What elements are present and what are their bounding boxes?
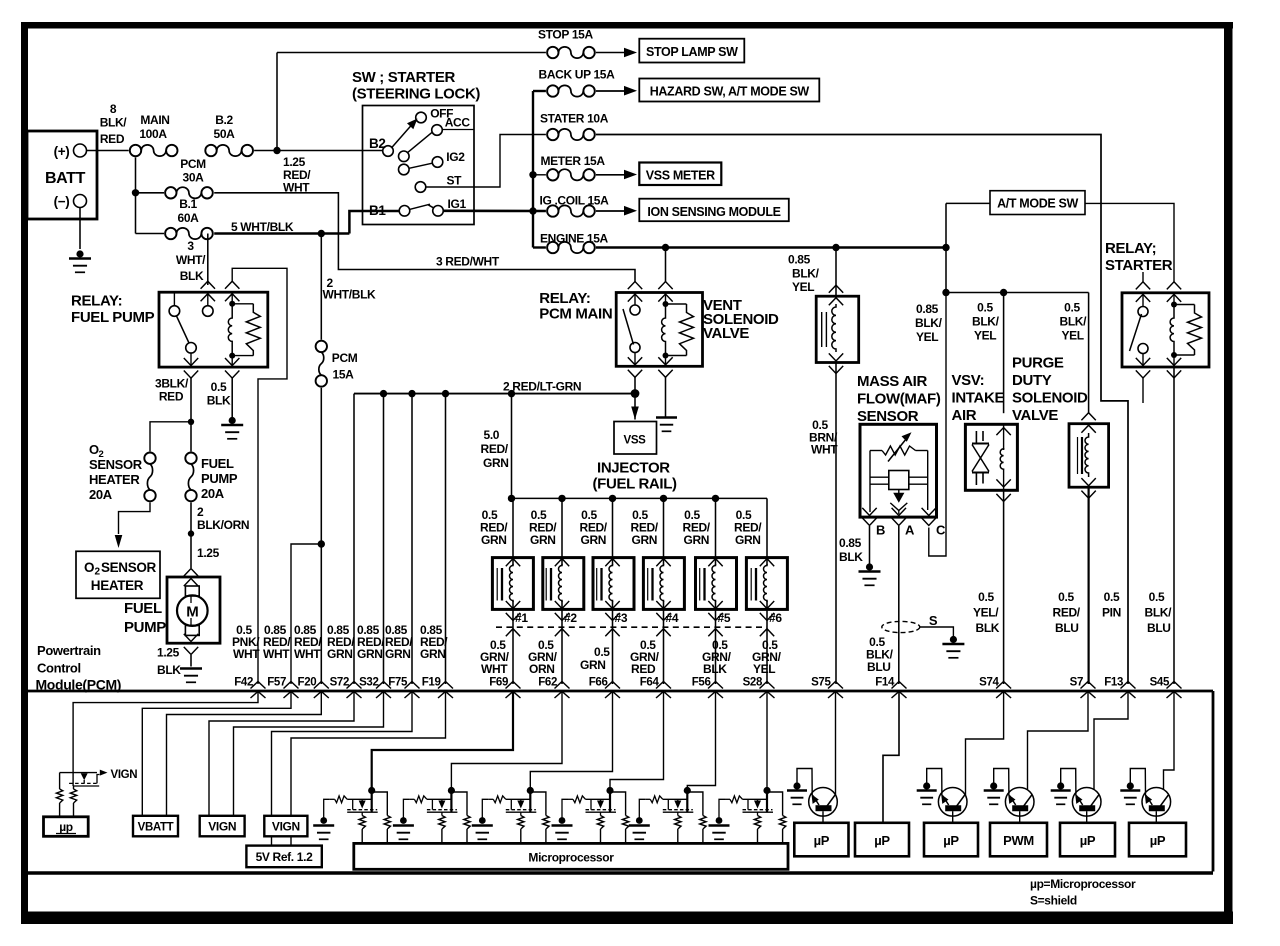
node rail junction injector 3	[609, 495, 616, 502]
wire BLK/YEL distribution bus	[946, 292, 1089, 294]
svg-text:5V Ref. 1.2: 5V Ref. 1.2	[256, 850, 314, 864]
relay fuel pump switch arm	[177, 316, 190, 343]
svg-text:F20: F20	[298, 677, 317, 689]
injector #1 core lines	[496, 568, 498, 601]
switch terminal B1	[399, 206, 410, 217]
transistor output stage	[938, 788, 967, 817]
resistor cell right	[73, 786, 75, 789]
wire A/T mode sw left to bus	[946, 202, 990, 204]
relay PCM main coil	[663, 301, 669, 307]
box uP driver	[794, 823, 848, 857]
ground driver cell	[716, 817, 723, 824]
svg-text:MAIN: MAIN	[140, 113, 169, 127]
fuse PCM 30A	[165, 187, 176, 198]
node junction to F57	[318, 540, 325, 547]
svg-text:F64: F64	[640, 677, 660, 689]
pin S28 PCM connector	[760, 682, 775, 689]
svg-text:F66: F66	[589, 677, 608, 689]
wire IG1 to IG COIL fuse row	[444, 210, 546, 213]
box Microprocessor	[354, 843, 788, 869]
relay PCM main switch contacts	[630, 305, 640, 315]
svg-text:GRN: GRN	[481, 533, 507, 547]
svg-text:VSV:: VSV:	[952, 372, 985, 389]
driver cell series resistor to microprocessor	[757, 812, 759, 815]
svg-text:ORN: ORN	[529, 662, 555, 676]
svg-text:BLK: BLK	[180, 269, 204, 283]
svg-text:STARTER: STARTER	[1105, 257, 1173, 274]
svg-text:VALVE: VALVE	[1012, 407, 1058, 424]
svg-text:0.5: 0.5	[1058, 590, 1074, 604]
driver cell ground leg	[639, 799, 645, 817]
wire bus corner up to B1	[349, 211, 399, 234]
svg-text:(STEERING LOCK): (STEERING LOCK)	[352, 86, 480, 103]
node junction 2 WHT/BLK	[318, 230, 325, 237]
VSV coil	[1003, 424, 1005, 450]
pin F66 PCM connector	[605, 682, 620, 689]
svg-text:F42: F42	[234, 677, 253, 689]
svg-text:WHT/BLK: WHT/BLK	[323, 288, 377, 302]
svg-text:60A: 60A	[178, 211, 200, 225]
wire base to driver box	[1019, 811, 1021, 823]
relay fuel pump coil resistor	[232, 303, 253, 305]
svg-text:YEL: YEL	[916, 330, 938, 344]
driver cell MOSFET	[597, 801, 604, 809]
wire battery positive to fuse MAIN	[87, 150, 129, 152]
driver cell series resistor to microprocessor	[677, 812, 679, 815]
wire pin route to internal block 7	[291, 692, 446, 817]
svg-text:S: S	[929, 613, 938, 628]
driver cell pull resistor right	[687, 792, 703, 816]
svg-text:PCM: PCM	[332, 351, 358, 365]
svg-text:B.2: B.2	[215, 113, 233, 127]
wire engine bus to vent solenoid	[835, 248, 837, 297]
svg-text:BLK/: BLK/	[1060, 315, 1088, 329]
driver cell junction	[609, 787, 611, 812]
svg-text:#2: #2	[564, 611, 577, 625]
driver cell series resistor to microprocessor	[441, 812, 443, 815]
driver cell ground leg	[562, 799, 568, 817]
injector #4 box	[643, 558, 684, 610]
svg-text:BLK/: BLK/	[1145, 606, 1173, 620]
sensor MAF box	[860, 424, 937, 517]
svg-text:0.85: 0.85	[839, 536, 862, 550]
wire injector pin route to driver cell 3	[530, 692, 612, 788]
wire relay switch output 3BLK/RED	[190, 378, 192, 451]
wire relay coil to ground	[665, 378, 667, 417]
transistor output stage	[1005, 788, 1034, 817]
purge solenoid core lines	[1077, 437, 1079, 474]
svg-text:RED/: RED/	[1053, 606, 1081, 620]
svg-text:BLK/: BLK/	[972, 315, 1000, 329]
svg-text:BLK: BLK	[839, 550, 863, 564]
wire arrow to ion sensing module	[596, 210, 624, 212]
wire rail to S72 pin	[353, 394, 355, 684]
svg-text:0.5: 0.5	[594, 645, 610, 659]
svg-text:Microprocessor: Microprocessor	[528, 851, 614, 865]
svg-text:B1: B1	[369, 203, 386, 218]
svg-text:2: 2	[197, 505, 204, 519]
wire fuel pump feed branch to O2 heater fuse	[150, 422, 191, 452]
svg-text:RED: RED	[631, 662, 656, 676]
driver cell gate network	[330, 798, 335, 800]
svg-text:WHT/: WHT/	[176, 253, 206, 267]
fuse MAIN 100A	[130, 145, 141, 156]
svg-text:PUMP: PUMP	[201, 471, 238, 486]
injector #4 coil	[660, 564, 663, 602]
svg-text:HEATER: HEATER	[89, 472, 140, 487]
purge solenoid coil	[1085, 433, 1089, 477]
ground driver cell	[559, 817, 566, 824]
wire fuse to fuel pump motor	[190, 502, 192, 568]
svg-text:F19: F19	[422, 677, 441, 689]
svg-text:ION SENSING MODULE: ION SENSING MODULE	[647, 205, 780, 219]
injector #4 core lines	[647, 568, 649, 601]
node junction vent solenoid	[832, 244, 839, 251]
driver cell pull resistor right	[767, 792, 783, 816]
injector #1 box	[492, 558, 533, 610]
svg-text:A: A	[905, 523, 915, 538]
svg-text:GRN: GRN	[580, 658, 606, 672]
ground driver cell	[636, 817, 643, 824]
svg-text:SENSOR: SENSOR	[101, 560, 157, 575]
driver cell junction	[686, 787, 688, 812]
svg-text:2: 2	[95, 567, 101, 578]
node junction vent-relay coil	[662, 244, 669, 251]
box microprocessor uP	[44, 817, 89, 837]
wire arrow to stop lamp sw	[596, 52, 624, 54]
svg-text:WHT: WHT	[481, 662, 508, 676]
svg-text:C: C	[936, 523, 946, 538]
svg-text:RELAY;: RELAY;	[1105, 240, 1156, 257]
shield ellipse on MAF signal	[882, 621, 920, 632]
svg-text:BLU: BLU	[1055, 621, 1079, 635]
svg-text:µP: µP	[1150, 833, 1166, 848]
wire 2 WHT/BLK down to PCM 15A fuse	[320, 234, 322, 340]
box HAZARD SW A/T MODE SW	[639, 79, 819, 102]
svg-text:Control: Control	[37, 661, 81, 676]
svg-text:BLU: BLU	[867, 660, 891, 674]
pin F64 PCM connector	[656, 682, 671, 689]
svg-text:IG2: IG2	[446, 150, 465, 164]
driver cell pull resistor right	[530, 792, 546, 816]
svg-text:INTAKE: INTAKE	[952, 390, 1005, 407]
svg-text:BLK/: BLK/	[915, 316, 943, 330]
svg-text:RED: RED	[159, 390, 184, 404]
svg-text:B2: B2	[369, 136, 386, 151]
switch arm B1 to IG1	[410, 204, 430, 209]
relay fuel pump coil	[229, 301, 235, 307]
injector #3 wire and pins	[612, 498, 614, 565]
node rail junctions	[380, 390, 387, 397]
wire MAF B to ground	[869, 526, 871, 564]
MAF inner element square	[889, 471, 909, 490]
wire injector firing dashed line	[496, 626, 767, 628]
svg-text:(FUEL RAIL): (FUEL RAIL)	[593, 476, 678, 493]
relay fuel pump box	[159, 292, 268, 367]
switch contact IG1	[433, 206, 444, 217]
wire base to driver box	[822, 811, 824, 823]
svg-text:1.25: 1.25	[157, 646, 180, 660]
wire base to driver box	[1155, 811, 1157, 823]
svg-text:15A: 15A	[333, 368, 355, 382]
pin F14 PCM connector	[892, 682, 907, 689]
wire B.2 fuse to switch B2	[254, 150, 383, 152]
wire pin route to internal block 6	[272, 692, 413, 817]
wire rail to S32 pin	[383, 394, 385, 684]
svg-text:µp: µp	[59, 820, 73, 834]
wire vent solenoid to S75	[835, 363, 837, 685]
svg-text:20A: 20A	[89, 487, 113, 502]
fuse B.1 60A	[165, 228, 176, 239]
injector #5 coil	[712, 564, 716, 602]
fuse O2 sensor heater 20A	[144, 453, 155, 464]
svg-text:PWM: PWM	[1003, 833, 1034, 848]
node rail junction injector 4	[660, 495, 667, 502]
wire S75 to transistor 1	[835, 692, 837, 796]
svg-text:YEL/: YEL/	[973, 606, 999, 620]
svg-text:STOP 15A: STOP 15A	[538, 28, 593, 42]
node rail dot	[508, 495, 515, 502]
svg-text:Powertrain: Powertrain	[37, 643, 101, 658]
svg-text:VIGN: VIGN	[272, 820, 300, 834]
svg-text:F57: F57	[267, 677, 286, 689]
relay PCM main coil resistor	[666, 303, 687, 305]
MAF pin A	[898, 511, 900, 515]
transistor output stage	[809, 788, 838, 817]
svg-text:S28: S28	[743, 677, 763, 689]
svg-text:F69: F69	[489, 677, 508, 689]
svg-text:F13: F13	[1104, 677, 1123, 689]
node junction at PCM 30A row	[132, 189, 139, 196]
node rail junction injector 2	[558, 495, 565, 502]
relay starter coil	[1171, 302, 1177, 308]
svg-text:BLU: BLU	[1147, 621, 1171, 635]
valve VSV intake air box	[965, 424, 1017, 490]
svg-text:VALVE: VALVE	[703, 325, 749, 342]
switch arm to IG2	[409, 163, 432, 168]
svg-text:0.85: 0.85	[916, 302, 939, 316]
ground driver cell	[479, 817, 486, 824]
driver cell ground leg	[719, 799, 725, 817]
svg-text:INJECTOR: INJECTOR	[597, 460, 670, 477]
relay PCM main box	[616, 293, 702, 367]
pin F56 PCM connector	[708, 682, 723, 689]
svg-text:WHT: WHT	[811, 443, 838, 457]
transistor output stage	[1072, 788, 1101, 817]
MAF adjust arrow	[888, 439, 907, 462]
svg-text:RELAY:: RELAY:	[71, 293, 122, 310]
pin F20 PCM connector	[314, 682, 329, 689]
injector #6 box	[746, 558, 787, 610]
svg-text:#4: #4	[666, 611, 679, 625]
motor fuel pump commutator and armature	[185, 586, 199, 596]
injector #1 wire and pins	[512, 498, 514, 565]
svg-text:5.0: 5.0	[484, 428, 500, 442]
wire MAF A to F14 pin	[898, 526, 900, 684]
box uP driver	[855, 823, 909, 857]
svg-text:PUMP: PUMP	[124, 619, 166, 636]
svg-text:BLK: BLK	[207, 394, 231, 408]
driver cell gate network	[409, 798, 414, 800]
injector #6 coil	[764, 564, 767, 602]
ground driver cell	[400, 817, 407, 824]
driver cell gate network	[488, 798, 493, 800]
wire O2 fuse to heater box with arrow	[119, 502, 151, 534]
svg-text:8: 8	[110, 102, 117, 116]
relay starter coil resistor	[1174, 304, 1195, 306]
box ION SENSING MODULE	[639, 199, 789, 222]
svg-text:M: M	[186, 604, 198, 621]
svg-text:#1: #1	[515, 611, 528, 625]
pin F13 PCM connector	[1121, 682, 1136, 689]
wire F13 to transistor 4	[1094, 692, 1128, 791]
relay starter box	[1122, 293, 1209, 367]
svg-text:SW ; STARTER: SW ; STARTER	[352, 69, 456, 86]
injector #2 box	[543, 558, 584, 610]
pin S72 PCM connector	[347, 682, 362, 689]
svg-text:0.5: 0.5	[1149, 590, 1165, 604]
wire down to purge solenoid	[1088, 293, 1090, 414]
relay fuel pump switch output contact	[186, 343, 197, 354]
driver cell MOSFET	[517, 801, 524, 809]
wire pin route to internal block 3	[167, 692, 322, 817]
ground fuel pump relay coil	[229, 417, 236, 424]
svg-text:PURGE: PURGE	[1012, 355, 1064, 372]
wire pin route to internal block 4	[209, 692, 354, 817]
svg-text:SENSOR: SENSOR	[857, 408, 919, 425]
svg-text:GRN: GRN	[581, 533, 607, 547]
box STOP LAMP SW	[639, 39, 744, 63]
wire down to MAF pin C	[929, 293, 946, 557]
wire 5 WHT/BLK bus from 60A fuse	[214, 232, 349, 235]
svg-text:VIGN: VIGN	[111, 769, 138, 781]
wire 2 RED/LT-GRN rail	[354, 393, 635, 395]
driver cell pull resistor right	[372, 792, 388, 816]
motor fuel pump box	[167, 577, 220, 643]
injector #4 wire and pins	[663, 498, 665, 565]
wire injector pin route to driver cell 2	[451, 692, 562, 788]
switch arm to ACC	[408, 133, 432, 153]
ground battery	[76, 250, 83, 257]
svg-text:VBATT: VBATT	[138, 822, 174, 834]
svg-text:µp=Microprocessor: µp=Microprocessor	[1030, 877, 1136, 891]
node junction splice	[188, 530, 194, 536]
svg-text:GRN: GRN	[735, 533, 761, 547]
svg-text:#5: #5	[718, 611, 731, 625]
wire 3 WHT/BLK from bus to relay	[207, 234, 209, 286]
switch contact ACC	[432, 125, 443, 136]
svg-text:µP: µP	[943, 833, 959, 848]
svg-text:SENSOR: SENSOR	[89, 457, 143, 472]
VSV valve symbol	[975, 431, 977, 443]
node rail junction injector 5	[712, 495, 719, 502]
box VBATT	[133, 816, 178, 837]
wire base to driver box	[952, 811, 954, 823]
svg-text:FLOW(MAF): FLOW(MAF)	[857, 391, 941, 408]
wire relay coil to ground 0.5 BLK	[231, 378, 233, 418]
svg-text:F56: F56	[692, 677, 711, 689]
wire injector pin route to driver cell 4	[610, 692, 664, 788]
wire arrow to VSS METER	[596, 174, 624, 176]
switch contact ST	[415, 182, 426, 193]
svg-text:µP: µP	[874, 833, 890, 848]
switch contact IG2	[432, 157, 443, 168]
wire pin route to internal block 1	[73, 692, 258, 773]
wire starter relay switch stub top	[1142, 272, 1144, 282]
svg-text:F14: F14	[875, 677, 895, 689]
svg-text:VIGN: VIGN	[208, 820, 236, 834]
wire rail to F75 pin	[411, 394, 413, 684]
svg-text:RED/: RED/	[481, 442, 509, 456]
driver cell junction	[766, 787, 768, 812]
injector #6 wire and pins	[766, 498, 768, 565]
ground emitter	[793, 782, 800, 789]
svg-text:BLK: BLK	[976, 621, 1000, 635]
svg-text:30A: 30A	[183, 171, 205, 185]
svg-text:GRN: GRN	[357, 647, 383, 661]
driver cell MOSFET	[438, 801, 445, 809]
svg-text:S32: S32	[359, 677, 378, 689]
wire ST to STATER fuse	[426, 135, 546, 188]
driver cell pull resistor right	[610, 792, 626, 816]
wire S74 to transistor 2	[966, 692, 1004, 796]
ground emitter	[923, 782, 930, 789]
MAF inner left rail	[869, 451, 871, 513]
svg-text:FUEL: FUEL	[201, 456, 234, 471]
driver cell ground leg	[403, 799, 409, 817]
svg-text:S72: S72	[330, 677, 349, 689]
driver cell junction	[371, 787, 373, 812]
svg-text:WHT: WHT	[233, 647, 260, 661]
svg-text:0.85: 0.85	[788, 253, 811, 267]
ground shield	[950, 636, 957, 643]
relay fuel pump switch input	[203, 306, 214, 317]
svg-text:1.25: 1.25	[283, 155, 306, 169]
svg-text:F62: F62	[538, 677, 557, 689]
box VIGN 1	[200, 816, 245, 837]
svg-text:1.25: 1.25	[197, 546, 220, 560]
svg-text:GRN: GRN	[684, 533, 710, 547]
svg-text:WHT: WHT	[263, 647, 290, 661]
wire emitter to ground	[1130, 769, 1145, 796]
wire S7 to transistor 3	[1028, 692, 1089, 791]
wire PCM 15A fuse down to F20 pin	[320, 388, 322, 684]
svg-text:ACC: ACC	[445, 115, 471, 129]
box VIGN 2	[264, 816, 307, 837]
svg-text:(+): (+)	[54, 144, 70, 159]
switch arm B2 to OFF with arrow	[392, 125, 412, 148]
node junction IG1 bus	[529, 207, 536, 214]
wire S45 to transistor 5	[1164, 692, 1175, 790]
svg-text:FUEL: FUEL	[124, 600, 162, 617]
svg-text:#3: #3	[615, 611, 628, 625]
ground emitter	[1057, 782, 1064, 789]
svg-text:3: 3	[187, 239, 194, 253]
switch contact OFF	[416, 112, 427, 123]
svg-text:GRN: GRN	[632, 533, 658, 547]
wire purge solenoid to S7 pin	[1087, 487, 1089, 684]
driver cell gate network	[725, 798, 730, 800]
svg-text:0.5: 0.5	[211, 380, 227, 394]
wire ENGINE 15A bus	[596, 246, 946, 248]
MAF inner right rail	[927, 451, 929, 511]
wire F14 to uP box 2	[883, 692, 899, 823]
svg-text:BATT: BATT	[45, 170, 86, 187]
pin S74 PCM connector	[996, 682, 1011, 689]
injector #5 wire and pins	[715, 498, 717, 565]
svg-text:S74: S74	[979, 677, 999, 689]
box PWM driver	[990, 823, 1047, 857]
